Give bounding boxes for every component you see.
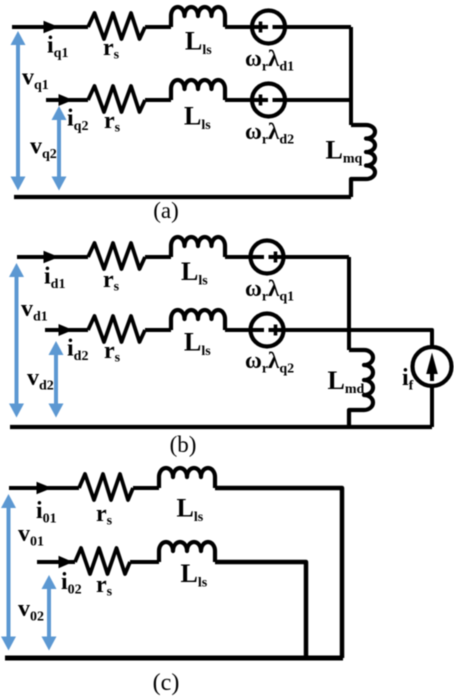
svg-text:id2: id2 (67, 336, 88, 365)
svg-text:vd2: vd2 (27, 365, 54, 394)
svg-text:(b): (b) (170, 432, 197, 457)
resistor rs (q2) (88, 86, 145, 112)
svg-text:rs: rs (104, 338, 121, 366)
svg-text:i02: i02 (61, 569, 82, 598)
inductor Lmd (349, 350, 373, 427)
svg-text:rs: rs (96, 572, 113, 600)
svg-text:Lmd: Lmd (328, 366, 365, 397)
svg-text:ωrλq2: ωrλq2 (245, 348, 294, 377)
resistor rs (02) (75, 548, 130, 574)
svg-text:Lls: Lls (181, 559, 208, 591)
source circle wr*lambda_q1 (251, 241, 284, 274)
wire (225, 255, 349, 259)
current arrow iq1 (44, 21, 60, 33)
current arrow id1 (44, 251, 60, 263)
wire (145, 255, 171, 259)
svg-text:Lls: Lls (184, 328, 211, 360)
inductor Lmq (351, 125, 375, 197)
svg-text:iq1: iq1 (47, 33, 68, 62)
wire branch d1 left (17, 255, 88, 259)
wire below current source (430, 386, 434, 427)
source circle wr*lambda_q2 (251, 314, 284, 347)
bottom rail (c) (5, 656, 343, 661)
wire branch q1 left (12, 25, 88, 29)
plus sign (259, 22, 263, 33)
svg-text:Lls: Lls (177, 494, 204, 526)
wire branch 01 left (9, 486, 79, 490)
svg-text:Lmq: Lmq (326, 136, 363, 167)
svg-text:rs: rs (104, 108, 121, 136)
inductor Lls (02) (159, 542, 215, 562)
wire right vertical (a) (349, 27, 353, 125)
varrow vq2 (57, 118, 61, 179)
varrow v01 (7, 506, 11, 640)
current source arrow (430, 364, 434, 381)
wire (225, 98, 351, 102)
resistor rs (01) (79, 474, 133, 500)
inductor Lls (d2) (171, 310, 225, 330)
source circle wr*lambda_d2 (252, 84, 285, 117)
svg-text:vq2: vq2 (30, 134, 57, 163)
svg-text:v01: v01 (18, 521, 44, 550)
svg-text:rs: rs (103, 267, 120, 295)
current arrow iq2 (59, 94, 74, 106)
wire branch q2 left (46, 98, 88, 102)
svg-text:rs: rs (96, 501, 113, 529)
svg-text:Lls: Lls (185, 27, 212, 59)
svg-text:iq2: iq2 (67, 106, 88, 135)
wire and right vertical (02) (215, 562, 306, 658)
resistor rs (d2) (88, 316, 145, 342)
labels (b) (21, 257, 414, 457)
wire (145, 328, 171, 332)
blue voltage arrows (b) (9, 263, 64, 418)
inductor Lls (q1) (171, 7, 225, 27)
svg-text:i01: i01 (36, 498, 57, 527)
svg-text:Lls: Lls (181, 257, 208, 289)
labels (a) (22, 27, 363, 224)
varrow vd2 (54, 353, 58, 406)
wire (145, 98, 171, 102)
current arrow i02 (59, 556, 74, 568)
plus sign (274, 252, 278, 263)
wire (130, 560, 159, 564)
current source circle if (413, 347, 452, 386)
svg-text:vq1: vq1 (22, 65, 49, 94)
bottom rail (b) (10, 425, 432, 429)
current arrow i01 (37, 482, 53, 494)
varrow vq1 (16, 43, 20, 179)
svg-text:id1: id1 (44, 264, 65, 293)
svg-text:v02: v02 (18, 596, 44, 625)
svg-text:ωrλd2: ωrλd2 (245, 119, 294, 148)
blue voltage arrows (a) (11, 31, 67, 191)
labels (c) (18, 494, 208, 697)
inductor Lls (d1) (171, 237, 225, 257)
wire (225, 328, 349, 332)
wire (133, 486, 159, 490)
resistor rs (d1) (88, 243, 145, 269)
svg-text:(a): (a) (153, 198, 179, 223)
svg-text:ωrλd1: ωrλd1 (245, 46, 294, 75)
varrow vd1 (15, 275, 19, 406)
wire and right vertical (01) (215, 488, 342, 658)
wire branch d2 left (45, 328, 88, 332)
svg-text:(c): (c) (153, 670, 180, 696)
plus sign (259, 95, 263, 106)
svg-text:rs: rs (103, 35, 120, 63)
inductor Lls (q2) (171, 80, 225, 100)
plus sign (274, 325, 278, 336)
wire branch 02 left (37, 560, 75, 564)
wire (225, 25, 351, 29)
svg-text:vd1: vd1 (21, 296, 48, 325)
svg-text:ωrλq1: ωrλq1 (245, 276, 294, 305)
svg-text:Lls: Lls (184, 102, 211, 134)
current arrow id2 (59, 324, 74, 336)
wire (145, 25, 171, 29)
source circle wr*lambda_d1 (252, 11, 285, 44)
blue voltage arrows (c) (1, 494, 57, 651)
inductor Lls (01) (159, 468, 215, 488)
varrow v02 (47, 587, 51, 640)
resistor rs (q1) (88, 13, 145, 39)
wire to current source (349, 330, 432, 347)
bottom rail (a) (14, 195, 351, 199)
wire right vertical (b) (347, 257, 351, 350)
